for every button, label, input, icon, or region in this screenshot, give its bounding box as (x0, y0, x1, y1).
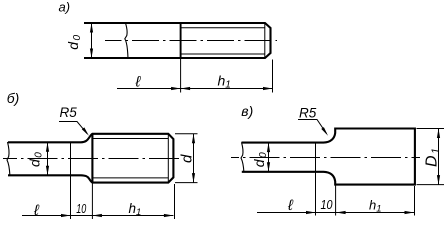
figure b) dimension d0 label (27, 151, 45, 167)
figure a) dimension l label (135, 73, 142, 90)
figure a) thread start line (180, 22, 182, 59)
figure c) dimension D1 line and arrows (437, 129, 440, 185)
figure b) dimension d line and arrows (192, 134, 195, 183)
figure a) centerline (105, 40, 277, 42)
figure b) thread chamfer line (167, 134, 169, 182)
figure a) dimension d0 label (65, 33, 83, 49)
figure b) dimension h1 label (129, 201, 142, 218)
figure b) dimension d label (178, 154, 195, 163)
figure a) break line (125, 23, 128, 59)
svg-text:10: 10 (76, 201, 87, 216)
figure c) extension line right (414, 186, 416, 216)
svg-text:в): в) (241, 103, 253, 119)
figure c) shaft and cylinder outline (242, 129, 415, 185)
figure b) extension line 10 left (70, 142, 72, 219)
figure c) fillet R5 label (299, 106, 317, 121)
figure b) break line (7, 142, 10, 176)
svg-text:d: d (178, 154, 195, 163)
figure c) dimension D1 label (424, 146, 442, 167)
figure a) dimension h1 label (218, 72, 231, 90)
figure c) label (241, 103, 253, 119)
figure b) centerline (3, 158, 181, 160)
figure b) dimension l label (33, 202, 40, 219)
figure b) extension line cylinder face (91, 183, 93, 219)
figure b) label (7, 90, 20, 106)
figure a) stud body outline (84, 23, 271, 58)
figure c) centerline (231, 157, 420, 159)
figure c) dimension 10 label (321, 198, 333, 212)
figure a) label (59, 0, 71, 14)
figure a) dimension l line and arrow (117, 87, 181, 90)
figure a) thread minor diameter lines (181, 28, 265, 54)
figure c) extension line 10 left (315, 143, 317, 216)
figure b) dimension d extension lines (175, 134, 198, 183)
figure b) bottom dimension line (22, 214, 173, 217)
svg-text:R5: R5 (60, 105, 78, 120)
figure b) fillet R5 label (60, 105, 78, 120)
figure c) break line (241, 142, 244, 172)
svg-text:10: 10 (321, 198, 333, 212)
svg-text:R5: R5 (299, 106, 317, 121)
figure c) dimension h1 label (369, 198, 382, 215)
figure a) dimension d0 line and arrows (90, 23, 93, 58)
figure c) dimension D1 extension lines (417, 129, 445, 185)
figure a) right extension line (272, 60, 274, 93)
figure c) dimension l label (287, 197, 294, 214)
figure c) fillet R5 leader (298, 120, 329, 137)
svg-text:б): б) (7, 90, 20, 106)
figure b) extension line right (174, 184, 176, 219)
figure a) thread start extension line (180, 59, 182, 93)
figure c) dimension d0 label (251, 151, 269, 167)
figure c) bottom dimension line (257, 211, 414, 214)
svg-text:а): а) (59, 0, 71, 14)
figure a) thread chamfer line (264, 24, 266, 58)
figure a) dimension h1 line and arrows (181, 87, 273, 90)
figure b) dimension 10 label (76, 201, 87, 216)
figure b) dimension d0 line and arrows (46, 142, 49, 175)
figure b) shaft and cylinder outline (8, 134, 173, 183)
figure c) dimension d0 line and arrows (267, 143, 270, 172)
figure c) extension line cylinder face (335, 185, 337, 216)
figure b) fillet R5 leader (59, 122, 90, 137)
figure b) thread minor diameter lines (92, 139, 168, 178)
